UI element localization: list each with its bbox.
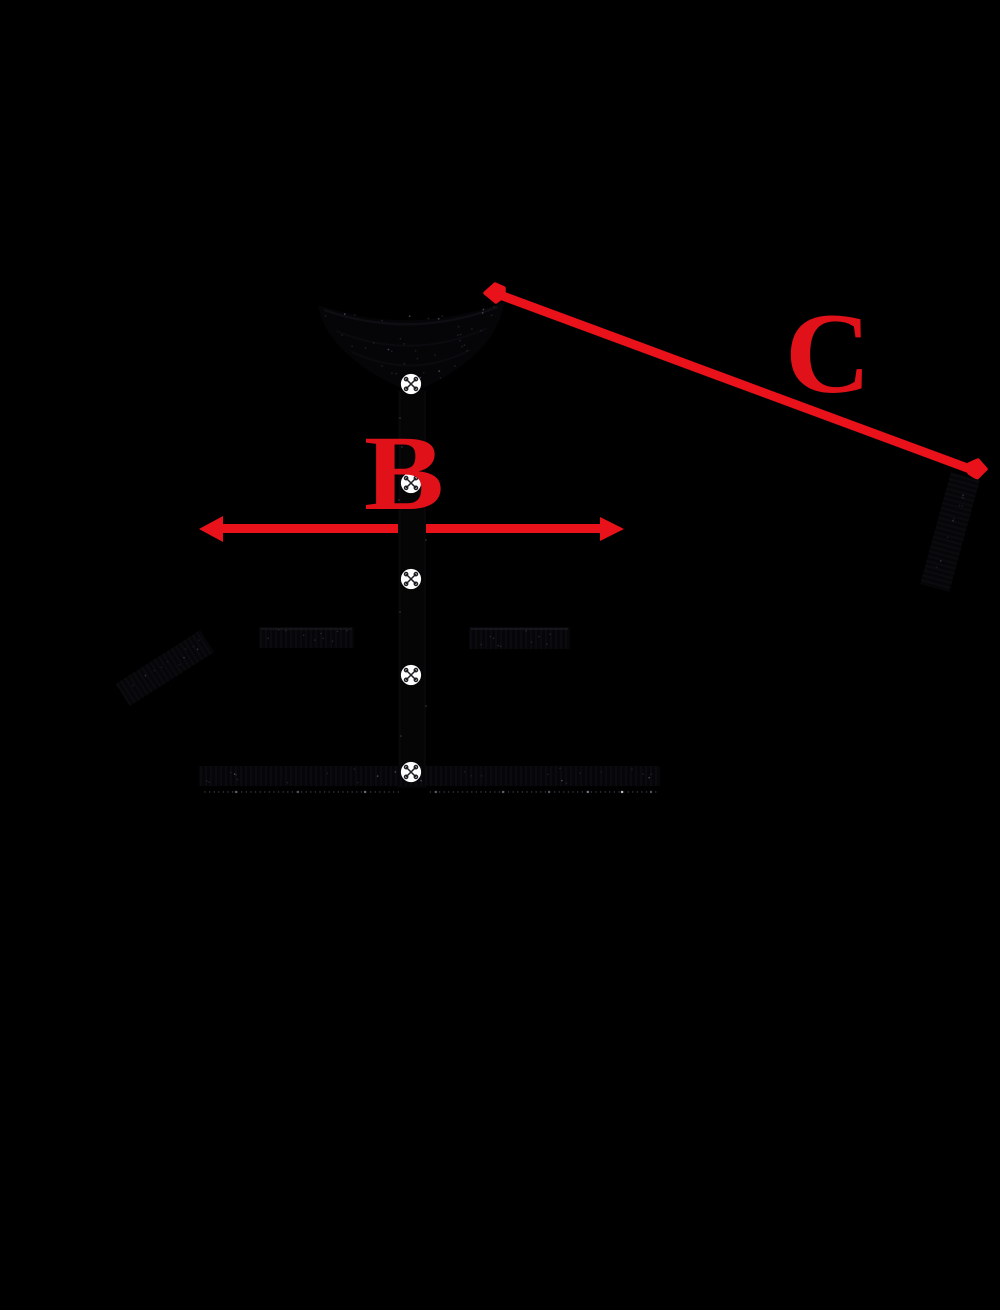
svg-text:B: B — [364, 415, 444, 533]
buttons — [401, 374, 421, 782]
measurement arrow B (horizontal, double-headed) — [199, 516, 624, 542]
placket strip (covers B arrow) — [398, 390, 426, 788]
measurement arrow C (diagonal, double-headed) — [485, 284, 986, 478]
left cuff rib (diagonal) — [116, 630, 214, 706]
right pocket rib — [469, 627, 570, 649]
right cuff rib (diagonal) — [920, 472, 980, 592]
left pocket rib — [259, 627, 354, 648]
svg-text:C: C — [785, 290, 871, 417]
sparse fabric speckles — [132, 306, 964, 784]
hem stitch dots — [204, 791, 656, 793]
collar rib hint arcs — [324, 307, 498, 324]
hem rib band — [199, 766, 660, 786]
garment dark art — [116, 302, 980, 793]
collar crescent — [318, 302, 504, 393]
